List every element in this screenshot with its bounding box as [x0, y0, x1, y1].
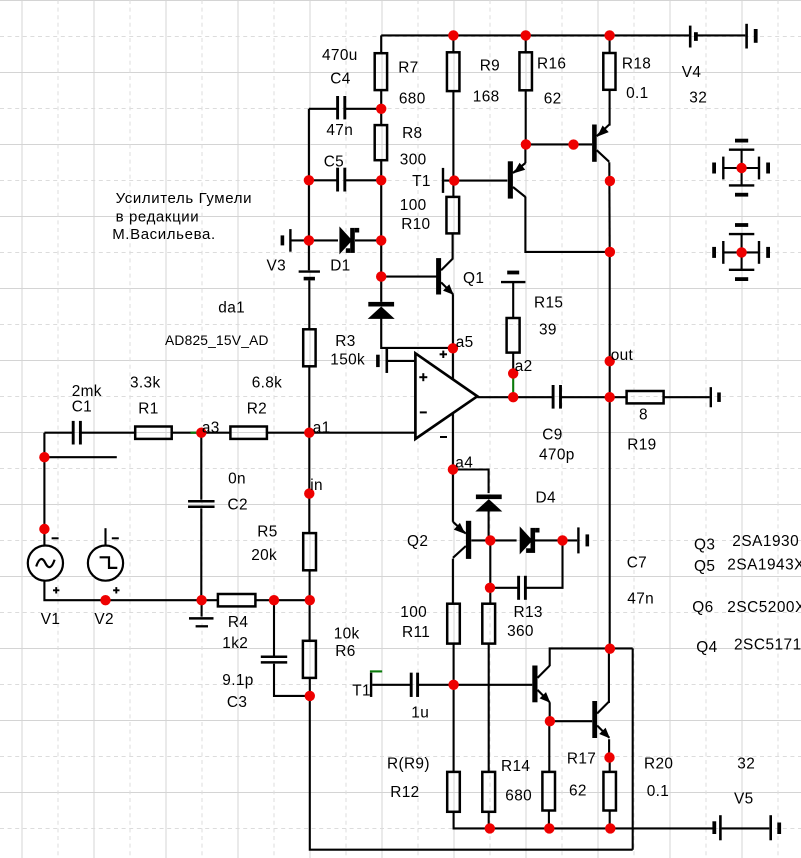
node a5 — [448, 343, 458, 353]
op-amp V+ pin marker — [440, 353, 447, 355]
op-amp noninverting input marker — [419, 376, 427, 378]
wire C4 left — [309, 108, 338, 110]
svg-text:47n: 47n — [627, 591, 654, 608]
svg-text:32: 32 — [689, 89, 707, 106]
resistor R19 — [627, 391, 664, 403]
node ground junction — [196, 595, 206, 605]
terminal T1 bottom — [370, 673, 372, 697]
svg-text:9.1p: 9.1p — [222, 672, 253, 689]
svg-text:R2: R2 — [247, 400, 267, 417]
svg-text:Q1: Q1 — [463, 270, 484, 287]
wire D2 to a5 corner — [381, 318, 453, 348]
node R6/C3 bottom — [305, 691, 315, 701]
wire R17 stub — [548, 721, 550, 772]
svg-text:R13: R13 — [514, 604, 543, 621]
svg-text:C3: C3 — [227, 694, 247, 711]
net stub T1 (green) — [370, 670, 382, 672]
wire Q6 emitter to Q4 base — [550, 702, 593, 721]
svg-text:680: 680 — [399, 90, 426, 107]
svg-text:a4: a4 — [455, 455, 473, 472]
battery V5 — [714, 815, 779, 840]
node D1 cathode — [376, 235, 386, 245]
node V1 top — [39, 524, 49, 534]
node a3 — [196, 428, 206, 438]
node Q2 base / D4 — [485, 535, 495, 545]
wire C9 to out node — [560, 396, 609, 398]
svg-text:R3: R3 — [335, 333, 355, 350]
wire R7 top stub — [380, 35, 382, 53]
node mirror base wire — [568, 139, 578, 149]
svg-text:Q3: Q3 — [694, 536, 715, 553]
svg-text:R20: R20 — [644, 756, 673, 773]
node C3 top — [269, 595, 279, 605]
op-amp V- pin marker — [440, 436, 447, 438]
svg-text:a3: a3 — [202, 420, 220, 437]
wire PNP2 emitter riser — [524, 144, 526, 163]
svg-text:0.1: 0.1 — [626, 85, 648, 102]
node V1 stub — [39, 452, 49, 462]
wire V3 battery stub — [308, 240, 310, 270]
svg-text:1k2: 1k2 — [222, 635, 248, 652]
svg-text:R12: R12 — [390, 784, 419, 801]
node C5 right — [376, 175, 386, 185]
resistor R2 — [230, 427, 267, 439]
wire D1 anode — [309, 239, 338, 241]
wire R5 to R6 — [309, 570, 311, 641]
resistor R16 — [519, 52, 532, 90]
svg-text:300: 300 — [400, 151, 427, 168]
wire C1 right — [80, 432, 135, 434]
node V2 bottom — [100, 595, 110, 605]
svg-text:V4: V4 — [682, 64, 702, 81]
svg-text:a1: a1 — [313, 420, 331, 437]
node mirror emitter / R16 — [521, 139, 531, 149]
node D5 / terminal — [557, 535, 567, 545]
svg-text:C5: C5 — [324, 153, 344, 170]
V2 minus sign — [112, 537, 119, 539]
svg-text:out: out — [611, 347, 634, 364]
diode D5 (zener) — [520, 526, 540, 554]
svg-text:R15: R15 — [534, 295, 563, 312]
wire C5 right — [345, 179, 381, 181]
svg-text:М.Васильева.: М.Васильева. — [112, 226, 216, 243]
wire cap junction column — [489, 540, 491, 603]
svg-text:100: 100 — [400, 197, 427, 214]
svg-text:3.3k: 3.3k — [130, 375, 161, 392]
wire C5 left — [309, 179, 338, 181]
wire Q2 collector to R11 — [452, 559, 454, 604]
svg-text:20k: 20k — [251, 547, 277, 564]
svg-text:C4: C4 — [330, 70, 350, 87]
wire D1 cathode — [355, 239, 381, 241]
node top rail / R18 — [604, 30, 614, 40]
svg-text:R4: R4 — [228, 614, 248, 631]
node PNP collector upper — [605, 176, 615, 186]
resistor R18 — [603, 53, 615, 90]
node Q1 base — [376, 271, 386, 281]
wire +in — [388, 360, 416, 362]
wire R1 to a3 — [172, 432, 202, 434]
op-amp U1 da1 AD825 — [415, 353, 477, 439]
svg-text:1u: 1u — [411, 704, 429, 721]
svg-text:Q5: Q5 — [694, 558, 715, 575]
wire R20 bottom stub — [609, 811, 611, 829]
svg-text:R5: R5 — [257, 523, 277, 540]
wire V4 mid segment — [697, 34, 745, 36]
diode D2 — [368, 302, 395, 319]
svg-text:V5: V5 — [734, 791, 754, 808]
svg-text:0n: 0n — [228, 471, 246, 488]
wire PNP collector down — [608, 162, 611, 252]
source V1 (sine) — [28, 546, 63, 581]
wire cap C7 left — [490, 587, 518, 589]
node T1 top — [449, 175, 459, 185]
wire R6 to bottom rail — [310, 678, 633, 850]
wire R9 top stub — [452, 35, 454, 52]
svg-text:47n: 47n — [326, 122, 353, 139]
svg-text:D4: D4 — [536, 489, 556, 506]
transistor Q8 (mirror right) — [592, 125, 609, 162]
wire R9 to R10 — [452, 91, 454, 197]
svg-text:C9: C9 — [542, 426, 562, 443]
capacitor C7 — [517, 576, 520, 600]
capacitor C8 1u — [410, 673, 413, 697]
node out column / Q4 collector — [605, 644, 615, 654]
wire R16 top stub — [525, 35, 527, 52]
wire V1 bottom to ground row — [44, 581, 218, 601]
wire stub right of V1 — [44, 456, 116, 458]
svg-text:a5: a5 — [456, 334, 474, 351]
capacitor C3 — [261, 656, 287, 659]
capacitor C2 — [188, 500, 215, 503]
capacitor C5 — [336, 168, 339, 192]
node a4 — [448, 464, 458, 474]
svg-text:2mk: 2mk — [72, 383, 102, 400]
wire R18 to PNP emitter — [609, 90, 611, 126]
resistor R3 — [303, 329, 315, 366]
wire Q4 emitter to R20 — [608, 739, 611, 772]
resistor R5 — [303, 533, 316, 570]
node Q6 emitter / Q4 base — [545, 716, 555, 726]
svg-text:in: in — [310, 477, 323, 494]
wire out column upper — [609, 252, 611, 397]
node a2 lower (out wire) — [508, 392, 518, 402]
svg-text:R7: R7 — [398, 59, 418, 76]
resistor R6 — [303, 641, 316, 678]
wire mirror base row — [526, 143, 592, 145]
wire R3 to R5 column — [308, 366, 310, 533]
battery V4 — [690, 24, 756, 49]
node top rail / R16 — [521, 30, 531, 40]
svg-text:2SC5171: 2SC5171 — [734, 636, 801, 653]
wire C4 right — [345, 108, 381, 110]
wire Q2 base row left — [471, 539, 516, 541]
node out / C9 / R19 — [605, 392, 615, 402]
battery V3 left cell — [289, 229, 291, 252]
wire 1u to Q6 base — [418, 684, 532, 686]
svg-text:D1: D1 — [330, 257, 350, 274]
net stub a3 (green) — [191, 432, 200, 434]
svg-text:R10: R10 — [401, 216, 430, 233]
resistor R4 — [218, 594, 256, 606]
transistor Q6 — [532, 666, 550, 703]
svg-text:R8: R8 — [402, 125, 422, 142]
wire R13 to R14 — [488, 644, 490, 772]
svg-text:6.8k: 6.8k — [252, 375, 283, 392]
wire V3 to R3 — [308, 281, 310, 330]
svg-text:168: 168 — [473, 88, 500, 105]
resistor R1 — [135, 427, 172, 439]
svg-text:Q2: Q2 — [407, 533, 428, 550]
node V3 — [304, 235, 314, 245]
wire 1u row left — [372, 684, 411, 686]
wire V1 column — [43, 433, 45, 546]
V1 plus sign — [53, 589, 59, 591]
svg-text:470p: 470p — [539, 446, 575, 463]
port after R19 (battery cell) — [710, 387, 712, 407]
svg-text:V2: V2 — [94, 611, 114, 628]
svg-text:T1: T1 — [352, 683, 371, 700]
svg-text:Q4: Q4 — [696, 639, 717, 656]
resistor R7 — [375, 53, 387, 90]
svg-text:680: 680 — [505, 787, 532, 804]
wire mirror collector column — [525, 197, 609, 252]
svg-text:R19: R19 — [627, 436, 656, 453]
wire a3 down to C2 — [200, 433, 202, 500]
svg-text:T1: T1 — [412, 173, 431, 190]
svg-text:V1: V1 — [41, 611, 61, 628]
svg-text:8: 8 — [639, 406, 648, 423]
wire R7-R8 segment — [380, 90, 382, 125]
wire opamp out — [477, 396, 553, 398]
svg-text:150k: 150k — [330, 351, 365, 368]
wire R10 to Q1 collector — [452, 233, 454, 258]
svg-text:470u: 470u — [322, 47, 358, 64]
resistor R13 — [482, 604, 495, 644]
resistor R12 — [447, 772, 460, 812]
wire C2 to ground junction — [200, 508, 202, 600]
svg-text:62: 62 — [569, 782, 587, 799]
resistor R20 — [603, 772, 616, 811]
terminal T1 top — [442, 168, 444, 193]
svg-text:AD825_15V_AD: AD825_15V_AD — [165, 333, 269, 348]
svg-text:R11: R11 — [402, 624, 430, 641]
V2 plus sign — [113, 589, 119, 591]
wire R2-a1-opamp — [267, 432, 416, 434]
svg-text:R9: R9 — [480, 58, 500, 75]
svg-text:0.1: 0.1 — [647, 783, 669, 800]
wire R16 down to mirror — [525, 90, 527, 144]
node in — [304, 488, 314, 498]
svg-text:V3: V3 — [267, 257, 287, 274]
svg-text:в редакции: в редакции — [116, 209, 200, 226]
wire R11 to R12 — [453, 644, 455, 772]
node out label — [605, 356, 615, 366]
svg-text:R6: R6 — [335, 643, 355, 660]
transistor Q4 — [592, 701, 610, 738]
diode D1 (zener) — [339, 226, 359, 254]
svg-text:da1: da1 — [218, 300, 245, 317]
svg-text:2SA1930: 2SA1930 — [732, 533, 799, 550]
svg-text:32: 32 — [737, 756, 755, 773]
wire left column C4-V3 — [308, 109, 310, 241]
resistor R10 — [446, 197, 459, 234]
wire bypass right column — [632, 648, 634, 849]
wire out column lower — [609, 397, 611, 648]
wire Q1 base — [381, 276, 437, 278]
terminal +in port (battery cell) — [385, 349, 388, 373]
svg-text:39: 39 — [539, 321, 557, 338]
wire C1 left — [44, 432, 73, 434]
wire D4 to base row — [488, 511, 490, 541]
svg-text:2SA1943X: 2SA1943X — [727, 556, 801, 573]
svg-text:R16: R16 — [537, 56, 566, 73]
node R14 bottom — [485, 823, 495, 833]
wire R17 bottom stub — [548, 811, 550, 829]
node a2 upper — [508, 368, 518, 378]
wire V5 mid segment — [722, 827, 770, 829]
capacitor C9 — [552, 385, 555, 409]
wire R8 to D2 — [380, 160, 382, 302]
wire a4 branch — [453, 470, 489, 494]
wire R15 to a2 — [512, 353, 514, 374]
wire cap C7 right — [526, 540, 563, 587]
wire C3 bottom — [274, 664, 310, 696]
ground — [189, 618, 214, 626]
wire Q2 base row right — [535, 539, 578, 541]
wire T1 to PNP base — [444, 180, 507, 182]
svg-text:R18: R18 — [622, 56, 651, 73]
wire C3 top — [273, 600, 275, 655]
resistor R14 — [482, 772, 495, 812]
wire V3 cell to junction — [292, 239, 309, 241]
source V2 (square) — [88, 546, 123, 581]
node C7 junction — [485, 583, 495, 593]
node C4-R7-R8 — [376, 104, 386, 114]
svg-text:R1: R1 — [138, 400, 158, 417]
battery V3 bottom cell — [299, 270, 320, 272]
svg-text:62: 62 — [544, 91, 562, 108]
port after D5 (battery cell) — [577, 527, 579, 553]
power symbol (op-amp supply +) center node — [736, 163, 746, 173]
power symbol (op-amp supply -) center node — [736, 247, 746, 257]
capacitor C4 — [336, 96, 339, 119]
node R5/R6 — [305, 595, 315, 605]
svg-text:100: 100 — [400, 604, 427, 621]
svg-text:C2: C2 — [228, 496, 248, 513]
capacitor C1 — [72, 421, 75, 445]
wire top supply rail — [381, 34, 689, 36]
transistor Q7 (mirror left) — [508, 161, 526, 198]
svg-text:R(R9): R(R9) — [387, 756, 430, 773]
power symbol (op-amp supply +) — [714, 141, 768, 195]
battery cell above R15 — [501, 281, 525, 283]
wire R4 to R5 row — [255, 599, 309, 601]
wire R19 right — [664, 396, 710, 398]
diode D4 — [475, 495, 502, 512]
svg-text:Q6: Q6 — [692, 599, 713, 616]
svg-text:2SC5200X: 2SC5200X — [727, 599, 801, 616]
wire V2 top stub — [104, 528, 106, 545]
node R20 bottom — [605, 823, 615, 833]
wire Q1 emitter to a5 — [452, 294, 454, 348]
svg-text:R14: R14 — [501, 758, 530, 775]
node C5 left — [304, 175, 314, 185]
node 1u junction — [448, 680, 458, 690]
wire R14 bottom stub — [488, 812, 490, 829]
wire Q6 collector riser — [550, 648, 633, 666]
transistor Q2 — [453, 521, 471, 559]
power symbol (op-amp supply -) — [714, 225, 768, 279]
wire R12 to bottom bus — [454, 812, 713, 829]
wire R19 left — [610, 396, 627, 398]
wire R18 top stub — [609, 35, 611, 53]
transistor Q1 — [436, 258, 454, 295]
resistor R8 — [375, 125, 387, 160]
svg-text:10k: 10k — [334, 626, 360, 643]
node R17 bottom — [544, 823, 554, 833]
op-amp inverting input marker — [420, 411, 427, 413]
svg-text:R17: R17 — [567, 750, 596, 767]
node a1 — [304, 428, 314, 438]
wire Q4 collector riser — [608, 648, 610, 703]
resistor R15 — [507, 318, 520, 353]
wire ground stub — [201, 600, 203, 616]
svg-text:Усилитель Гумели: Усилитель Гумели — [116, 190, 252, 207]
node collector row — [605, 247, 615, 257]
svg-text:a2: a2 — [515, 358, 533, 375]
svg-text:C1: C1 — [72, 399, 92, 416]
wire R15 battery stub — [512, 283, 514, 318]
V1 minus sign — [52, 537, 59, 539]
resistor R9 — [447, 52, 460, 91]
resistor R17 — [542, 772, 555, 811]
node top rail / R9 — [448, 30, 458, 40]
net stub a2 (green) — [512, 377, 514, 394]
node Q4 emitter / R20 — [604, 752, 614, 762]
resistor R11 — [447, 604, 460, 644]
wire a5 to Q2 — [452, 348, 454, 522]
svg-text:C7: C7 — [627, 555, 647, 572]
svg-text:360: 360 — [507, 623, 534, 640]
wire a3-R2 — [201, 432, 230, 434]
